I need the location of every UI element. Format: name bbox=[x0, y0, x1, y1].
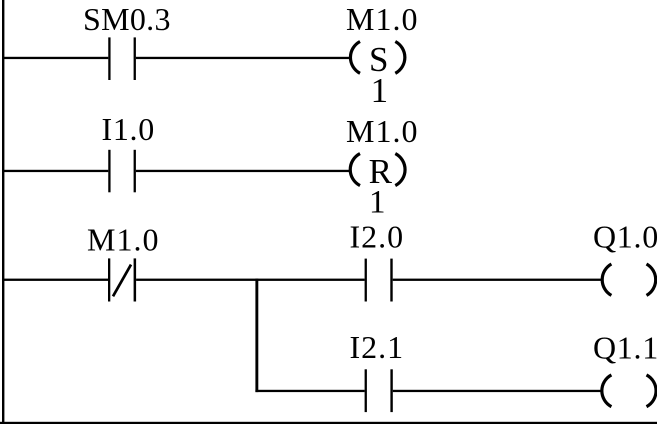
coil R (reset), right arc bbox=[395, 154, 405, 186]
coil S (set), left arc bbox=[350, 42, 360, 74]
wire: rung 1, rail to contact SM0.3 bbox=[2, 57, 108, 59]
coil R (reset), left arc bbox=[350, 154, 360, 186]
svg-text:I2.1: I2.1 bbox=[350, 329, 405, 365]
wire: rung 2, rail to contact I1.0 bbox=[2, 170, 108, 172]
svg-text:1: 1 bbox=[371, 71, 389, 110]
wire: rung 3, rail to contact M1.0 bbox=[2, 279, 108, 281]
wire: rung 3, contact I2.0 to coil Q1.0 bbox=[393, 279, 602, 281]
wire: rung 2, contact I1.0 to coil R bbox=[136, 170, 350, 172]
coil S (set), right arc bbox=[395, 42, 405, 74]
coil Q1.1, right arc bbox=[647, 375, 657, 407]
svg-text:Q1.1: Q1.1 bbox=[593, 329, 657, 365]
contact SM0.3 (normally open) bbox=[108, 37, 136, 80]
wire: branch, branch node to contact I2.1 bbox=[255, 390, 364, 392]
svg-text:I1.0: I1.0 bbox=[102, 111, 155, 147]
contact I2.0 (normally open) bbox=[365, 259, 393, 302]
contact I2.1 (normally open) bbox=[365, 369, 393, 412]
svg-text:Q1.0: Q1.0 bbox=[593, 219, 657, 255]
left power rail bbox=[2, 0, 4, 424]
contact I1.0 (normally open) bbox=[108, 150, 136, 193]
wire: rung 3, contact M1.0 to contact I2.0 (through branch node) bbox=[136, 279, 365, 281]
coil Q1.0, right arc bbox=[647, 264, 656, 295]
svg-text:M1.0: M1.0 bbox=[87, 222, 159, 258]
branch vertical wire bbox=[255, 279, 258, 393]
contact M1.0 (normally closed) bbox=[108, 258, 136, 301]
svg-text:1: 1 bbox=[369, 184, 386, 220]
coil Q1.1, left arc bbox=[602, 375, 612, 407]
svg-text:SM0.3: SM0.3 bbox=[83, 1, 171, 37]
svg-text:M1.0: M1.0 bbox=[346, 1, 418, 37]
svg-text:I2.0: I2.0 bbox=[350, 219, 405, 255]
wire: rung 1, contact SM0.3 to coil S bbox=[136, 57, 350, 59]
bottom border line bbox=[0, 422, 657, 424]
wire: branch, contact I2.1 to coil Q1.1 bbox=[393, 390, 602, 392]
svg-text:M1.0: M1.0 bbox=[346, 113, 418, 149]
coil Q1.0, left arc bbox=[602, 264, 611, 295]
